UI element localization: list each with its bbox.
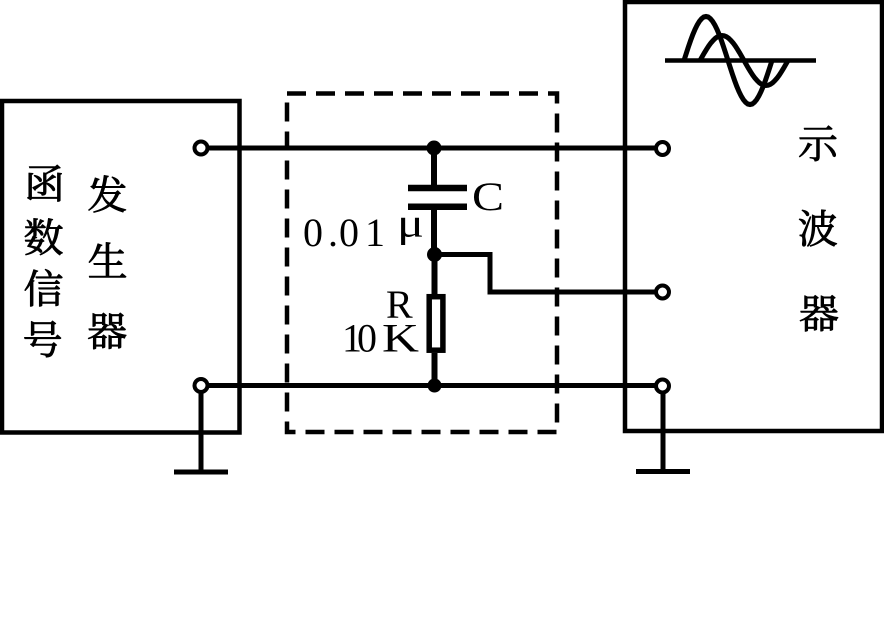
svg-text:K: K bbox=[382, 316, 419, 361]
svg-text:C: C bbox=[472, 174, 504, 219]
svg-text:0: 0 bbox=[357, 316, 377, 361]
svg-text:0: 0 bbox=[339, 210, 359, 255]
svg-text:.: . bbox=[328, 210, 338, 255]
svg-text:μ: μ bbox=[397, 201, 424, 246]
svg-text:1: 1 bbox=[365, 210, 385, 255]
svg-text:0: 0 bbox=[303, 210, 323, 255]
